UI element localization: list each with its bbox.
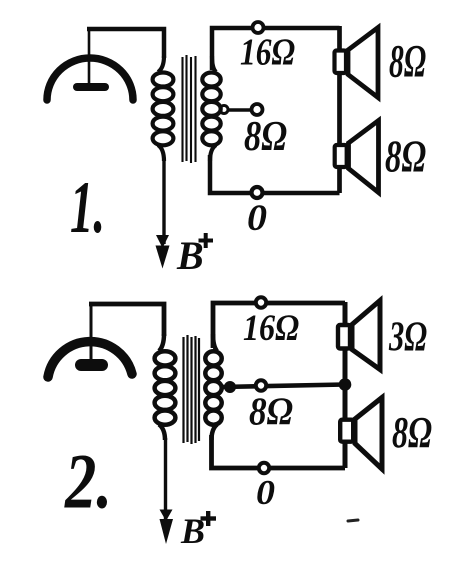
wire: V1 anode to transformer T1 primary top (87, 29, 164, 58)
tube V1 envelope arc (47, 58, 133, 100)
svg-text:2.: 2. (64, 438, 112, 525)
terminal 16Ω circuit 2 (open circle) (256, 297, 266, 307)
svg-text:3Ω: 3Ω (388, 315, 427, 361)
speaker LS4 (8Ω) (340, 398, 382, 470)
svg-text:16Ω: 16Ω (243, 307, 299, 348)
wire: speaker bus circuit 1 (337, 26, 342, 193)
junction dot: tap at secondary (224, 381, 236, 393)
speaker LS1 (8Ω) (335, 28, 379, 98)
speaker LS2 (8Ω) (335, 121, 379, 193)
svg-text:0: 0 (247, 198, 267, 239)
wire: T1 secondary top to 16Ω terminal and speaker bus (212, 28, 340, 70)
wire: T2 secondary bottom to 0 terminal and bus (212, 435, 346, 468)
terminal 16Ω (open circle) (253, 22, 264, 33)
junction dot: tap at speaker bus (339, 378, 352, 391)
label B+ (176, 233, 213, 278)
transformer T2 primary winding (155, 334, 176, 440)
wire: T1 primary bottom to B+ (162, 158, 165, 244)
wire: T1 secondary bottom to 0 terminal and bus (210, 155, 340, 193)
speaker LS3 (3Ω) (338, 301, 380, 370)
B+ arrow (power) circuit 2 (160, 510, 174, 545)
transformer T1 secondary winding (202, 56, 220, 161)
wire: speaker bus circuit 2 (343, 302, 348, 468)
terminal 8Ω (open circle) (252, 104, 263, 115)
svg-text:1.: 1. (70, 167, 105, 249)
label B+ circuit 2 (180, 511, 216, 551)
tube V1 anode plate (77, 83, 105, 91)
transformer T1 primary winding (153, 56, 174, 161)
svg-text:0: 0 (256, 473, 275, 512)
transformer T2 core (184, 335, 200, 444)
terminal 0 circuit 2 (open circle) (259, 463, 269, 473)
svg-text:8Ω: 8Ω (249, 390, 293, 433)
svg-text:8Ω: 8Ω (392, 408, 432, 457)
svg-text:8Ω: 8Ω (244, 114, 287, 160)
terminal 0 (open circle) (252, 187, 263, 198)
wire: V2 anode to transformer T2 primary top (89, 304, 164, 336)
wire: T1 secondary tap to 8Ω terminal (220, 106, 253, 114)
transformer T1 core (183, 55, 196, 163)
svg-text:8Ω: 8Ω (385, 132, 426, 182)
transformer T2 secondary winding (205, 334, 221, 440)
tube V2 anode plate (81, 359, 102, 371)
wire: T2 secondary top to 16Ω terminal and speaker bus (213, 303, 345, 348)
wire: T2 secondary tap to speaker-bus midpoint (221, 385, 345, 388)
terminal 8Ω circuit 2 (open circle) (256, 380, 266, 390)
B+ arrow (power) (156, 235, 170, 269)
tube V2 anode lead (90, 304, 93, 362)
svg-text:16Ω: 16Ω (240, 32, 295, 74)
svg-text:8Ω: 8Ω (389, 36, 426, 88)
wire: T2 primary bottom to B+ (164, 438, 167, 520)
tube V2 envelope arc (48, 342, 132, 377)
tube V1 anode lead (88, 29, 91, 85)
